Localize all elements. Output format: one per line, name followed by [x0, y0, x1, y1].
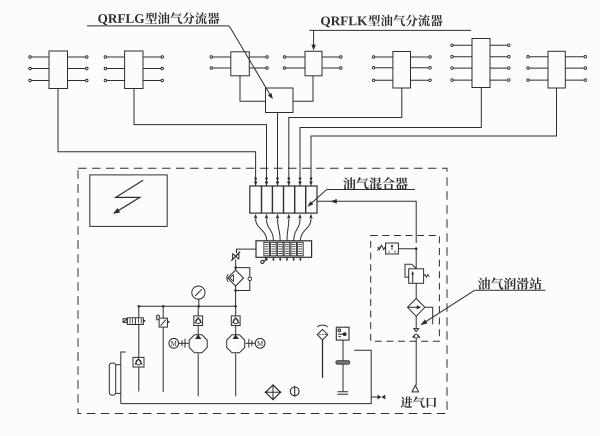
hand shutoff valve on oil riser: [231, 252, 240, 261]
leader of QRFLG label: [229, 26, 271, 96]
junction dot air line: [415, 247, 418, 250]
solenoid valve: [138, 306, 140, 318]
level switch box: [336, 327, 349, 340]
label air inlet: [401, 396, 437, 408]
wire B4 to CB: [293, 76, 313, 102]
mixer outlet arrows and curves to manifold: [254, 214, 313, 241]
pressure regulator: [405, 264, 429, 283]
wire check to pump P2: [235, 306, 237, 336]
svg-text:b: b: [394, 249, 396, 254]
wire B2 to mixer inlet 2: [134, 89, 267, 187]
wire check valve to pump manifold: [235, 286, 237, 306]
pump outlet ball check P1: [194, 316, 203, 326]
lightning bolt symbol: [116, 180, 143, 211]
wire CB to mixer inlet 3: [277, 113, 279, 187]
drain shutoff valve: [371, 396, 377, 398]
flow sight diamond on bottom pipe: [266, 385, 281, 400]
pump P1: [189, 335, 207, 353]
distributor block B7: [527, 51, 587, 88]
wire into regulator: [415, 249, 417, 269]
check valve diamond: [228, 270, 244, 286]
drain hook at manifold bottom left: [261, 257, 266, 263]
inner dashed boundary around air prep unit: [371, 236, 440, 342]
distributor block B1: [29, 51, 88, 89]
motor M of pump P1: [169, 338, 179, 348]
wire B3 to CB: [240, 76, 266, 102]
ball check on air line: [415, 316, 417, 328]
tank side wire: [121, 352, 126, 404]
oil-gas mixer block: [250, 186, 317, 213]
relief valve drain wire: [162, 327, 164, 392]
pump manifold wire: [139, 305, 236, 307]
bottom return pipe: [121, 350, 371, 403]
underline of QRFLK label: [309, 29, 471, 31]
suction wire pump P2: [235, 354, 237, 397]
pump outlet ball check P2: [231, 316, 240, 326]
distributor block B6: [451, 39, 510, 88]
bypass wire around check valve: [236, 268, 250, 291]
svg-text:M: M: [171, 340, 178, 348]
relief valve: [162, 306, 164, 318]
suction wire pump P1: [197, 354, 199, 397]
breather drain wire: [322, 340, 324, 378]
wire solenoid valve down to ball check: [138, 325, 140, 358]
label oil-gas lubrication station: [478, 277, 541, 289]
thermometer circle on bottom pipe: [290, 387, 299, 396]
tank level gauge: [109, 363, 115, 395]
combined distributor block CB: [266, 88, 294, 113]
wire regulator to filter: [415, 283, 417, 298]
distributor block B2: [104, 51, 163, 89]
wire valve to check-valve loop: [235, 259, 237, 270]
junction dots and arrows at mixer inlets: [254, 177, 313, 186]
station outer dashed boundary: [78, 168, 447, 413]
pressure gauge: [198, 299, 200, 306]
distributor block B4: [283, 51, 342, 76]
pump P2: [227, 335, 245, 353]
filter drain leg: [425, 307, 433, 324]
distributor block B3: [210, 52, 268, 76]
label QRFLK distributor title: [321, 15, 442, 28]
wire down to air inlet: [415, 338, 417, 385]
wire B1 to mixer inlet 1: [58, 89, 256, 187]
ball check box under solenoid valve: [133, 357, 144, 367]
underline + leader of mixer label: [310, 190, 415, 205]
distributor block B5: [372, 52, 431, 89]
svg-text:a: a: [388, 249, 390, 254]
underline + leader of lubrication station label: [425, 290, 545, 322]
manifold outlet stubs: [265, 257, 302, 261]
leader of QRFLK label: [313, 30, 315, 45]
wire B7 to mixer inlet 6: [311, 88, 557, 186]
wire B6 to mixer inlet 5: [300, 88, 481, 187]
wire B5 to mixer inlet 4: [289, 88, 402, 186]
air feed wire into mixer: [317, 201, 416, 243]
label oil-gas mixer: [343, 177, 408, 189]
svg-text:M: M: [257, 340, 264, 348]
level switch stem and plates in tank: [342, 340, 344, 361]
shaft coupling of pump P1: [179, 342, 189, 344]
underline of QRFLG label: [87, 25, 229, 27]
motor M of pump P2: [255, 338, 265, 348]
wire check to pump P1: [197, 306, 199, 336]
breather: [317, 325, 328, 340]
electrical control box: [90, 175, 167, 227]
oil feed wire from riser to manifold: [237, 249, 257, 253]
label QRFLG distributor title: [98, 12, 219, 25]
air inlet triangle: [412, 385, 419, 392]
suction wire below ball check: [138, 367, 140, 392]
shaft coupling of pump P2: [245, 342, 255, 344]
oil-gas filter diamond: [408, 299, 425, 317]
pressure switch: [398, 248, 416, 250]
progressive distributor manifold: [256, 241, 312, 257]
